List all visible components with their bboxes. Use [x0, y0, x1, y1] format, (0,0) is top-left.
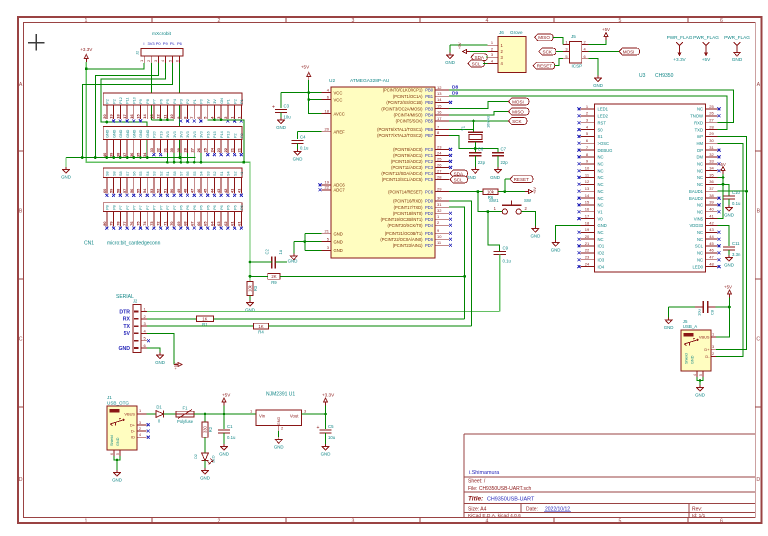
svg-text:3: 3 [565, 47, 567, 52]
svg-text:S3: S3 [153, 171, 157, 176]
svg-text:17: 17 [437, 116, 442, 121]
svg-text:Shield: Shield [685, 353, 689, 364]
svg-text:P3: P3 [180, 99, 184, 104]
svg-text:GND: GND [146, 129, 150, 138]
svg-text:B: B [757, 209, 761, 215]
svg-text:C9: C9 [503, 245, 509, 250]
svg-text:GND: GND [155, 360, 165, 365]
svg-text:41: 41 [709, 213, 714, 218]
svg-text:NC: NC [697, 175, 703, 180]
svg-text:3: 3 [139, 421, 141, 425]
svg-text:GND: GND [116, 437, 120, 446]
svg-text:GND: GND [200, 476, 210, 481]
svg-text:2: 2 [218, 518, 221, 524]
svg-text:GND: GND [593, 83, 603, 88]
svg-text:NC: NC [697, 209, 703, 214]
svg-text:0.1u: 0.1u [503, 259, 512, 264]
svg-text:PC5: PC5 [425, 177, 434, 182]
svg-text:40: 40 [709, 207, 714, 212]
svg-text:20: 20 [325, 127, 330, 132]
svg-text:44: 44 [709, 234, 714, 239]
svg-text:(PCINT3/OC2A/MOSI): (PCINT3/OC2A/MOSI) [381, 106, 423, 111]
svg-text:GND: GND [126, 129, 130, 138]
svg-text:27: 27 [437, 168, 442, 173]
svg-text:VBUS: VBUS [699, 335, 710, 340]
svg-text:F1: F1 [183, 406, 189, 411]
svg-text:l: l [144, 41, 145, 46]
svg-text:P13: P13 [227, 131, 231, 138]
svg-text:20: 20 [585, 234, 590, 239]
svg-text:S8: S8 [106, 171, 110, 176]
svg-text:NC: NC [598, 155, 604, 160]
svg-text:45: 45 [709, 241, 714, 246]
svg-text:(PCINT1/OC1A): (PCINT1/OC1A) [393, 94, 423, 99]
svg-text:P7: P7 [153, 205, 157, 210]
svg-text:Y1: Y1 [461, 125, 466, 131]
svg-text:DM: DM [696, 155, 703, 160]
svg-text:C7: C7 [501, 147, 507, 152]
svg-text:P7: P7 [132, 205, 136, 210]
svg-text:31: 31 [709, 145, 714, 150]
svg-text:(PCINT20/XCK/T0): (PCINT20/XCK/T0) [387, 223, 423, 228]
svg-text:NC: NC [697, 182, 703, 187]
svg-text:D9: D9 [452, 91, 458, 97]
svg-text:12: 12 [585, 179, 590, 184]
svg-text:D-: D- [131, 429, 136, 434]
svg-text:V1: V1 [598, 209, 604, 214]
svg-text:330: 330 [203, 425, 208, 433]
svg-text:NC: NC [697, 257, 703, 262]
svg-text:P2: P2 [240, 133, 244, 138]
svg-text:PC1: PC1 [425, 153, 434, 158]
svg-text:3: 3 [491, 52, 493, 57]
svg-text:14: 14 [437, 97, 442, 102]
svg-text:3V3: 3V3 [193, 131, 197, 138]
svg-text:S2: S2 [159, 171, 163, 176]
svg-text:10: 10 [585, 165, 590, 170]
svg-text:25: 25 [437, 156, 442, 161]
svg-text:BAUD2: BAUD2 [689, 196, 704, 201]
svg-text:MOSI: MOSI [623, 49, 635, 54]
svg-text:+5V: +5V [718, 162, 726, 167]
svg-text:S8: S8 [119, 171, 123, 176]
svg-text:P1: P1 [240, 99, 244, 104]
svg-text:NC: NC [598, 203, 604, 208]
svg-text:AVCC: AVCC [334, 111, 345, 116]
svg-text:C5: C5 [328, 424, 334, 429]
svg-text:26: 26 [709, 111, 714, 116]
svg-text:RXD: RXD [694, 120, 703, 125]
svg-text:5: 5 [619, 518, 622, 524]
svg-text:15: 15 [585, 200, 590, 205]
svg-text:17: 17 [122, 114, 127, 118]
svg-text:GND: GND [277, 417, 281, 426]
svg-text:R9: R9 [271, 280, 277, 285]
svg-text:P2: P2 [186, 99, 190, 104]
svg-text:24: 24 [585, 261, 590, 266]
svg-text:32: 32 [437, 208, 442, 213]
svg-text:3V3: 3V3 [186, 131, 190, 138]
svg-text:0.1u: 0.1u [732, 201, 741, 206]
svg-text:A: A [757, 82, 761, 88]
svg-text:ADC7: ADC7 [334, 188, 346, 193]
svg-text:1: 1 [491, 40, 493, 45]
svg-text:2: 2 [712, 351, 714, 356]
svg-text:1: 1 [565, 40, 567, 45]
svg-text:C: C [756, 337, 760, 343]
svg-text:S2: S2 [213, 171, 217, 176]
svg-text:60: 60 [102, 189, 107, 193]
svg-text:S6: S6 [186, 171, 190, 176]
svg-text:GND: GND [119, 129, 123, 138]
svg-text:19: 19 [585, 227, 590, 232]
svg-text:+3.3V: +3.3V [673, 57, 686, 62]
svg-text:GND: GND [118, 346, 130, 352]
svg-text:PD6: PD6 [425, 237, 434, 242]
svg-text:10u: 10u [697, 309, 702, 316]
svg-text:P4: P4 [173, 99, 177, 104]
svg-text:PD4: PD4 [425, 223, 434, 228]
svg-text:GND: GND [276, 125, 286, 130]
svg-text:3: 3 [352, 518, 355, 524]
svg-text:P1: P1 [227, 99, 231, 104]
svg-text:29: 29 [709, 131, 714, 136]
svg-text:SCK: SCK [512, 119, 522, 124]
svg-text:5: 5 [619, 18, 622, 24]
svg-text:PD5: PD5 [425, 231, 434, 236]
svg-text:(PCINT10/ADC2): (PCINT10/ADC2) [391, 159, 423, 164]
svg-text:PD1: PD1 [425, 205, 434, 210]
svg-text:28: 28 [437, 174, 442, 179]
svg-text:34: 34 [709, 165, 714, 170]
svg-text:0.1u: 0.1u [300, 146, 309, 151]
svg-text:S1: S1 [598, 134, 604, 139]
svg-text:S0: S0 [598, 127, 604, 132]
svg-text:NC: NC [598, 196, 604, 201]
svg-text:57: 57 [122, 189, 127, 193]
svg-text:30: 30 [169, 148, 174, 152]
svg-text:IO1: IO1 [598, 244, 605, 249]
svg-text:GND: GND [724, 263, 734, 268]
svg-text:P7: P7 [153, 99, 157, 104]
svg-text:ICSP: ICSP [572, 64, 583, 69]
svg-text:S4: S4 [200, 171, 204, 176]
svg-text:GND: GND [445, 60, 455, 65]
svg-text:D: D [756, 477, 760, 483]
svg-text:27: 27 [709, 118, 714, 123]
svg-text:10k: 10k [487, 189, 495, 194]
svg-text:25: 25 [709, 104, 714, 109]
svg-text:J1: J1 [107, 395, 112, 400]
svg-text:GND: GND [598, 223, 607, 228]
svg-text:IO2: IO2 [598, 251, 605, 256]
svg-text:10u: 10u [284, 115, 292, 120]
svg-text:DP: DP [697, 148, 703, 153]
svg-text:(PCINT8/ADC0): (PCINT8/ADC0) [393, 147, 423, 152]
svg-text:+5V: +5V [222, 393, 231, 398]
svg-text:1u: 1u [278, 250, 283, 255]
svg-text:PC4: PC4 [425, 171, 434, 176]
svg-text:LED1: LED1 [598, 107, 609, 112]
svg-text:P6: P6 [220, 205, 224, 210]
svg-text:31: 31 [437, 202, 442, 207]
svg-text:RX: RX [123, 317, 131, 323]
svg-text:PD2: PD2 [425, 211, 434, 216]
svg-text:NC: NC [697, 107, 703, 112]
svg-text:3V3: 3V3 [200, 131, 204, 138]
svg-text:GND: GND [334, 231, 343, 236]
svg-text:VCC: VCC [334, 90, 343, 95]
svg-text:3: 3 [153, 60, 158, 62]
svg-text:SERIAL: SERIAL [116, 294, 134, 300]
svg-text:PD3: PD3 [425, 217, 434, 222]
svg-text:PB0: PB0 [425, 88, 433, 93]
svg-text:4: 4 [139, 433, 141, 437]
svg-text:22: 22 [325, 185, 330, 190]
svg-text:3V3: 3V3 [148, 41, 156, 46]
svg-text:1K: 1K [258, 324, 263, 329]
svg-text:10u: 10u [328, 435, 336, 440]
svg-text:P6: P6 [177, 41, 183, 46]
svg-text:6: 6 [720, 518, 723, 524]
svg-text:30: 30 [709, 138, 714, 143]
svg-text:0.1u: 0.1u [227, 435, 236, 440]
svg-text:32: 32 [709, 152, 714, 157]
svg-text:S5: S5 [193, 171, 197, 176]
svg-text:(PCINT4/MISO): (PCINT4/MISO) [394, 113, 424, 118]
svg-text:VIN5: VIN5 [694, 216, 704, 221]
svg-text:NC: NC [697, 162, 703, 167]
svg-text:P7: P7 [146, 205, 150, 210]
svg-text:PC2: PC2 [425, 159, 434, 164]
svg-text:File: CH9350USB-UART.sch: File: CH9350USB-UART.sch [468, 486, 531, 492]
svg-text:PB3: PB3 [425, 106, 433, 111]
svg-text:1K: 1K [202, 317, 207, 322]
svg-text:ID: ID [131, 435, 135, 440]
svg-text:(PCINT11/ADC3): (PCINT11/ADC3) [391, 165, 423, 170]
svg-text:3V: 3V [213, 99, 217, 104]
svg-text:23: 23 [437, 144, 442, 149]
svg-text:P6: P6 [193, 205, 197, 210]
svg-text:3V3: 3V3 [173, 131, 177, 138]
svg-text:NC: NC [598, 162, 604, 167]
svg-text:GND: GND [61, 175, 71, 180]
svg-text:S6: S6 [132, 171, 136, 176]
svg-text:A: A [19, 82, 23, 88]
svg-text:S1: S1 [166, 171, 170, 176]
svg-text:PD0: PD0 [425, 199, 434, 204]
svg-text:P6: P6 [240, 205, 244, 210]
svg-text:+5V: +5V [533, 187, 537, 194]
svg-text:GND: GND [106, 129, 110, 138]
svg-text:22p: 22p [478, 160, 486, 165]
svg-text:GND: GND [691, 355, 695, 364]
svg-text:70: 70 [169, 221, 174, 225]
svg-text:15: 15 [437, 103, 442, 108]
svg-text:(PCINT19/OC2B/INT1): (PCINT19/OC2B/INT1) [381, 217, 423, 222]
svg-text:2: 2 [218, 18, 221, 24]
svg-text:C6: C6 [478, 147, 484, 152]
svg-text:GND: GND [695, 393, 705, 398]
svg-text:GND: GND [334, 248, 343, 253]
svg-text:NC: NC [598, 230, 604, 235]
svg-text:i.Shimamura: i.Shimamura [469, 470, 499, 476]
svg-text:ATMEGA328P-AU: ATMEGA328P-AU [350, 78, 390, 84]
svg-text:29: 29 [437, 186, 442, 191]
svg-text:J6: J6 [499, 30, 504, 35]
svg-text:17: 17 [585, 213, 590, 218]
svg-text:2K: 2K [271, 274, 276, 279]
svg-text:P7: P7 [159, 205, 163, 210]
svg-text:Date:: Date: [526, 507, 538, 513]
svg-text:3: 3 [352, 18, 355, 24]
svg-text:Shield: Shield [110, 435, 114, 446]
svg-text:(PCINT7/XTAL2/TOSC2): (PCINT7/XTAL2/TOSC2) [377, 133, 423, 138]
svg-text:GND: GND [139, 129, 143, 138]
svg-text:LED2: LED2 [598, 114, 609, 119]
svg-text:C3: C3 [284, 103, 290, 108]
svg-text:P12: P12 [119, 97, 123, 104]
svg-text:23: 23 [585, 255, 590, 260]
svg-text:GND: GND [724, 213, 734, 218]
svg-text:C11: C11 [732, 241, 740, 246]
svg-text:AREF: AREF [334, 129, 346, 134]
svg-text:U3: U3 [639, 73, 646, 79]
svg-text:+1: +1 [240, 172, 244, 176]
svg-text:V0: V0 [598, 216, 604, 221]
svg-text:P6: P6 [159, 99, 163, 104]
svg-text:33: 33 [709, 159, 714, 164]
svg-text:B: B [19, 209, 23, 215]
svg-text:C: C [19, 337, 23, 343]
svg-text:+5V: +5V [702, 57, 711, 62]
svg-text:P2: P2 [233, 99, 237, 104]
svg-text:mP: mP [697, 134, 703, 139]
svg-text:1: 1 [712, 332, 714, 337]
svg-text:micro:bit_cardedgeconn: micro:bit_cardedgeconn [107, 241, 161, 247]
svg-text:27: 27 [189, 148, 194, 152]
svg-text:P7: P7 [126, 205, 130, 210]
svg-text:R2: R2 [208, 426, 213, 432]
svg-text:RST: RST [598, 120, 607, 125]
svg-text:10: 10 [169, 114, 174, 118]
svg-text:P2: P2 [106, 99, 110, 104]
svg-text:MISO: MISO [538, 35, 550, 40]
svg-text:PC0: PC0 [425, 147, 434, 152]
svg-text:PWR_FLAG: PWR_FLAG [724, 35, 750, 40]
svg-text:50: 50 [169, 189, 174, 193]
svg-text:J2: J2 [135, 51, 140, 55]
svg-text:(PCINT18/INT0): (PCINT18/INT0) [393, 211, 423, 216]
svg-text:RESET: RESET [514, 177, 530, 182]
svg-text:5V: 5V [124, 331, 131, 337]
svg-text:SCK: SCK [543, 49, 553, 54]
svg-text:5: 5 [116, 453, 120, 455]
svg-text:6: 6 [174, 60, 179, 62]
svg-text:NC: NC [697, 237, 703, 242]
svg-text:PC3: PC3 [425, 165, 434, 170]
svg-text:GND: GND [732, 57, 743, 62]
svg-text:P6: P6 [186, 205, 190, 210]
svg-text:1: 1 [139, 60, 144, 62]
svg-text:4: 4 [693, 374, 697, 376]
svg-text:(PCINT13/SCL/ADC5): (PCINT13/SCL/ADC5) [382, 177, 423, 182]
svg-text:(PCINT2/SS/OC1B): (PCINT2/SS/OC1B) [386, 100, 423, 105]
svg-text:CH9350USB-UART: CH9350USB-UART [487, 496, 535, 502]
svg-text:P5: P5 [166, 99, 170, 104]
svg-text:(PCINT16/RXD): (PCINT16/RXD) [393, 199, 423, 204]
svg-text:1: 1 [139, 408, 141, 413]
svg-text:21: 21 [325, 229, 330, 234]
svg-text:S3: S3 [206, 171, 210, 176]
svg-text:P7: P7 [139, 205, 143, 210]
svg-text:GND: GND [112, 129, 116, 138]
svg-text:Grove: Grove [510, 30, 523, 35]
svg-text:S1: S1 [220, 171, 224, 176]
svg-text:SCL: SCL [454, 177, 463, 182]
svg-text:PC6: PC6 [425, 189, 434, 194]
svg-text:P6: P6 [227, 205, 231, 210]
svg-text:+: + [317, 425, 320, 431]
svg-text:PD7: PD7 [425, 243, 434, 248]
svg-text:SDA: SDA [475, 55, 485, 60]
svg-text:P15: P15 [213, 131, 217, 138]
svg-text:(PCINT23/AIN1): (PCINT23/AIN1) [393, 243, 423, 248]
svg-text:SDA: SDA [454, 171, 464, 176]
svg-text:PB7: PB7 [425, 133, 433, 138]
svg-text:LED0: LED0 [693, 264, 704, 269]
svg-text:SW: SW [524, 198, 532, 203]
svg-text:4: 4 [486, 18, 489, 24]
svg-text:S8: S8 [112, 171, 116, 176]
svg-text:30: 30 [437, 196, 442, 201]
svg-text:16: 16 [437, 110, 442, 115]
svg-text:3V: 3V [206, 99, 210, 104]
svg-text:NC: NC [598, 168, 604, 173]
svg-text:RESET: RESET [537, 64, 553, 69]
svg-text:47: 47 [189, 189, 194, 193]
svg-text:+5V: +5V [458, 42, 462, 49]
svg-text:PL: PL [170, 41, 176, 46]
svg-text:GND: GND [132, 129, 136, 138]
svg-text:35: 35 [709, 172, 714, 177]
svg-text:PB2: PB2 [425, 100, 433, 105]
svg-text:80: 80 [102, 221, 107, 225]
svg-text:P7: P7 [119, 205, 123, 210]
svg-text:47: 47 [709, 255, 714, 260]
svg-text:GN: GN [220, 98, 224, 104]
svg-text:Sheet: /: Sheet: / [468, 479, 486, 485]
svg-text:P6: P6 [200, 205, 204, 210]
svg-text:36: 36 [709, 179, 714, 184]
svg-text:NC: NC [598, 182, 604, 187]
svg-text:P0: P0 [200, 99, 204, 104]
svg-text:D8: D8 [452, 85, 458, 91]
svg-text:5: 5 [565, 54, 567, 59]
svg-text:10: 10 [437, 234, 442, 239]
svg-text:GND: GND [531, 234, 541, 239]
svg-text:P6: P6 [213, 205, 217, 210]
svg-text:39: 39 [709, 200, 714, 205]
svg-text:Title:: Title: [468, 496, 483, 503]
svg-text:P8: P8 [146, 99, 150, 104]
svg-text:R3: R3 [253, 285, 258, 291]
svg-text:U2: U2 [329, 78, 335, 84]
svg-text:J2: J2 [133, 299, 138, 304]
svg-text:P8: P8 [106, 205, 110, 210]
svg-text:PWR_FLAG: PWR_FLAG [667, 35, 693, 40]
svg-text:1: 1 [85, 518, 88, 524]
